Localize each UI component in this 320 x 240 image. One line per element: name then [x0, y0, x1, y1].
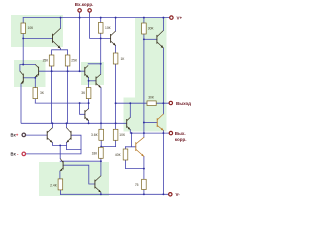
svg-text:75: 75	[135, 183, 139, 187]
svg-text:10К: 10К	[105, 26, 111, 30]
svg-text:3К: 3К	[40, 91, 44, 95]
svg-text:10К: 10К	[28, 26, 34, 30]
svg-text:V-: V-	[176, 192, 181, 197]
svg-text:Вх.корр.: Вх.корр.	[75, 2, 94, 7]
svg-text:Вх+: Вх+	[11, 133, 19, 138]
svg-text:корр.: корр.	[175, 137, 187, 142]
svg-text:2.4К: 2.4К	[50, 184, 57, 188]
svg-text:1К: 1К	[121, 57, 125, 61]
svg-text:25К: 25К	[43, 59, 49, 63]
svg-text:Выход: Выход	[176, 101, 191, 106]
svg-text:V+: V+	[177, 15, 183, 20]
svg-text:30К: 30К	[148, 96, 154, 100]
svg-text:25К: 25К	[71, 59, 77, 63]
svg-text:3.6К: 3.6К	[91, 133, 98, 137]
svg-text:30К: 30К	[148, 27, 154, 31]
svg-text:10К: 10К	[119, 133, 125, 137]
svg-text:Вых.: Вых.	[175, 131, 186, 136]
svg-text:40К: 40К	[115, 153, 121, 157]
svg-text:3К: 3К	[81, 91, 85, 95]
svg-text:Вх -: Вх -	[11, 152, 19, 157]
svg-text:18К: 18К	[92, 152, 98, 156]
